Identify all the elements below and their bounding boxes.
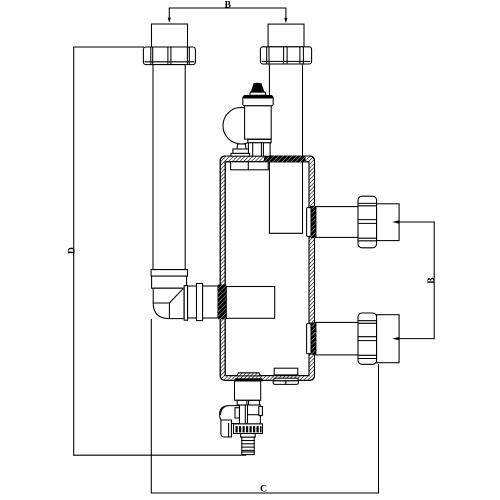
elbow outlet hub <box>184 286 187 321</box>
dip tube inside tank <box>269 162 302 233</box>
hose barb tail <box>242 437 254 454</box>
right wall penetration upper black <box>309 206 316 238</box>
right upper port backplate <box>307 208 311 237</box>
valve handle grip <box>221 420 232 437</box>
drain valve body <box>235 381 261 400</box>
air vent neck <box>250 92 266 95</box>
left wall penetration black <box>218 285 226 320</box>
dimension line B right <box>392 220 437 340</box>
horizontal pipe outer segment <box>203 286 218 318</box>
inlet pipe inside tank <box>226 287 274 319</box>
drain valve top black collar <box>234 379 263 382</box>
float chamber pedestal neck <box>237 144 246 149</box>
air vent lower hex <box>248 143 270 156</box>
magnet pocket inside tank <box>274 368 298 375</box>
valve handle lever <box>220 406 240 424</box>
air vent float chamber circle <box>223 107 260 144</box>
svg-text:D: D <box>67 247 77 254</box>
air vent locknut inside tank <box>231 162 269 170</box>
dimension line C bottom <box>151 320 378 495</box>
elbow socket band <box>152 276 187 288</box>
air vent knob black <box>251 83 264 92</box>
pocket cap lobes <box>273 381 298 385</box>
air vent body <box>245 106 272 139</box>
dimension line B top <box>168 1 288 24</box>
middle vertical pipe <box>269 64 302 156</box>
right upper tailpiece <box>377 204 400 241</box>
hose nut knurled <box>234 424 263 434</box>
air vent bottom flange <box>248 139 271 142</box>
drain valve joint <box>237 400 259 405</box>
right wall penetration lower black <box>309 322 316 354</box>
tank shell hatched <box>220 156 314 380</box>
air vent cap top black <box>243 95 273 98</box>
air vent cap <box>243 98 273 106</box>
right lower tailpiece <box>377 315 400 363</box>
svg-text:C: C <box>260 485 267 495</box>
left top tailpiece <box>152 24 188 47</box>
dimension line D left <box>67 47 245 455</box>
hose barb base <box>241 434 256 438</box>
pocket gland collar <box>274 378 298 381</box>
float chamber pedestal plate <box>233 149 249 153</box>
right upper union nut <box>358 196 377 248</box>
float chamber pedestal base <box>231 153 250 156</box>
right upper port pipe <box>316 207 358 238</box>
right lower port backplate <box>307 324 311 354</box>
left vertical pipe <box>153 65 185 270</box>
middle top tailpiece <box>268 24 304 47</box>
right lower port pipe <box>316 322 358 355</box>
left union nut <box>143 47 195 65</box>
pipe ring <box>197 284 203 321</box>
horizontal pipe to tank <box>188 286 197 318</box>
top wall penetration (vent pipe) black <box>264 156 306 163</box>
svg-text:B: B <box>427 277 437 284</box>
svg-text:B: B <box>225 1 232 11</box>
middle union nut <box>260 47 311 64</box>
ball valve body <box>238 405 262 424</box>
elbow body <box>153 288 184 318</box>
drain boss on tank bottom <box>237 373 261 376</box>
right lower union nut <box>358 313 377 364</box>
elbow socket collar <box>151 270 187 277</box>
